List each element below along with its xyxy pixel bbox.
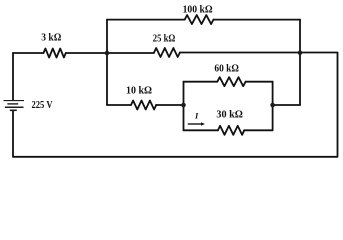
svg-text:25 kΩ: 25 kΩ — [153, 34, 176, 45]
svg-text:3 kΩ: 3 kΩ — [41, 32, 61, 43]
svg-text:30 kΩ: 30 kΩ — [216, 109, 243, 120]
svg-text:225 V: 225 V — [32, 100, 54, 111]
svg-text:60 kΩ: 60 kΩ — [214, 64, 239, 75]
svg-text:I: I — [194, 111, 199, 121]
svg-text:10 kΩ: 10 kΩ — [126, 86, 152, 97]
svg-text:100 kΩ: 100 kΩ — [183, 5, 213, 16]
